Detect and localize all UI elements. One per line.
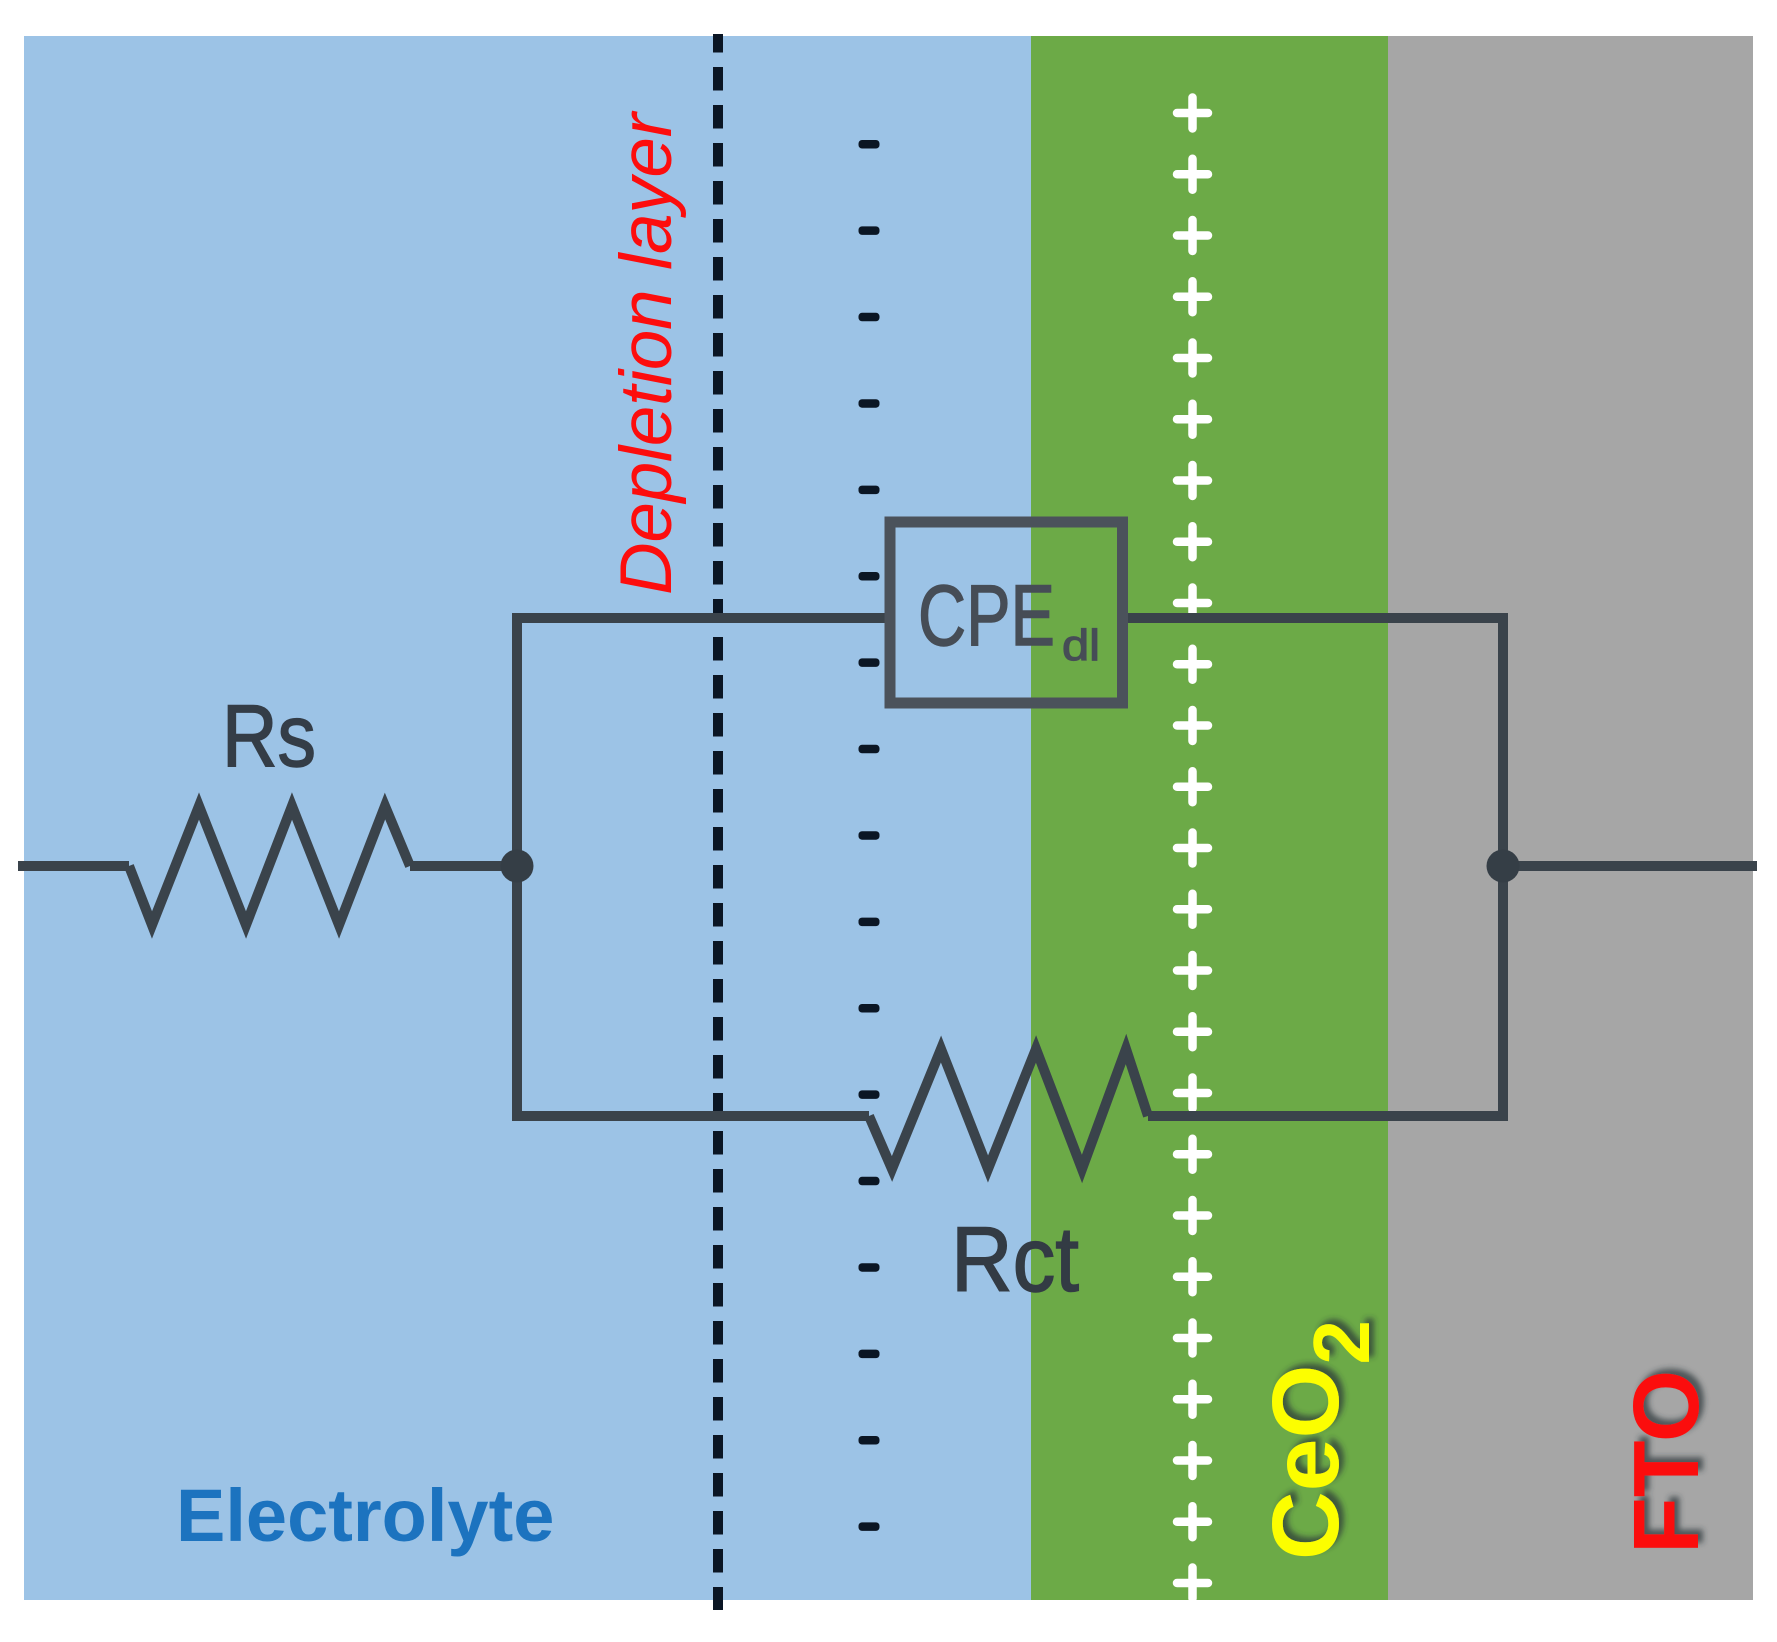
resistor Rs (zigzag) [129,806,410,925]
wire: left vertical branch [512,613,522,1121]
wire: top branch right (CPE box to right vertical) [1128,613,1503,623]
node/net region: Electrolyte (blue background) [24,36,1031,1600]
CPE element box (constant phase element CPE_dl) [890,522,1123,703]
resistor Rct (zigzag) [869,1049,1148,1169]
wire: bottom branch left (node A to Rct) [517,1111,869,1121]
positive charge column (plus symbols in CeO2 layer) [1177,98,1208,1599]
depletion layer boundary (vertical dashed line) [713,34,723,1610]
svg-text:FTO: FTO [1614,1370,1718,1554]
svg-text:Electrolyte: Electrolyte [176,1474,554,1557]
svg-text:dl: dl [1062,621,1100,670]
wire: bottom branch right (Rct to right vertical) [1148,1111,1503,1121]
node B (right junction dot) [1487,850,1520,883]
svg-text:Rs: Rs [222,686,316,785]
wire: Rs to node A [410,861,517,871]
svg-text:Rct: Rct [951,1209,1079,1311]
wire: right vertical branch [1498,613,1508,1121]
node A (left junction dot) [501,850,534,883]
wire: left input lead [18,861,129,871]
wire: top branch left (node A to CPE box) [517,613,886,623]
wire: right output lead (node B to FTO edge) [1503,861,1757,871]
node/net region: FTO electrode (gray background) [1388,36,1753,1600]
node/net region: CeO2 layer (green background) [1031,36,1388,1600]
svg-text:CPE: CPE [918,568,1055,664]
svg-text:Depletion layer: Depletion layer [606,110,687,595]
negative charge column (minus symbols in electrolyte) [859,140,880,1531]
